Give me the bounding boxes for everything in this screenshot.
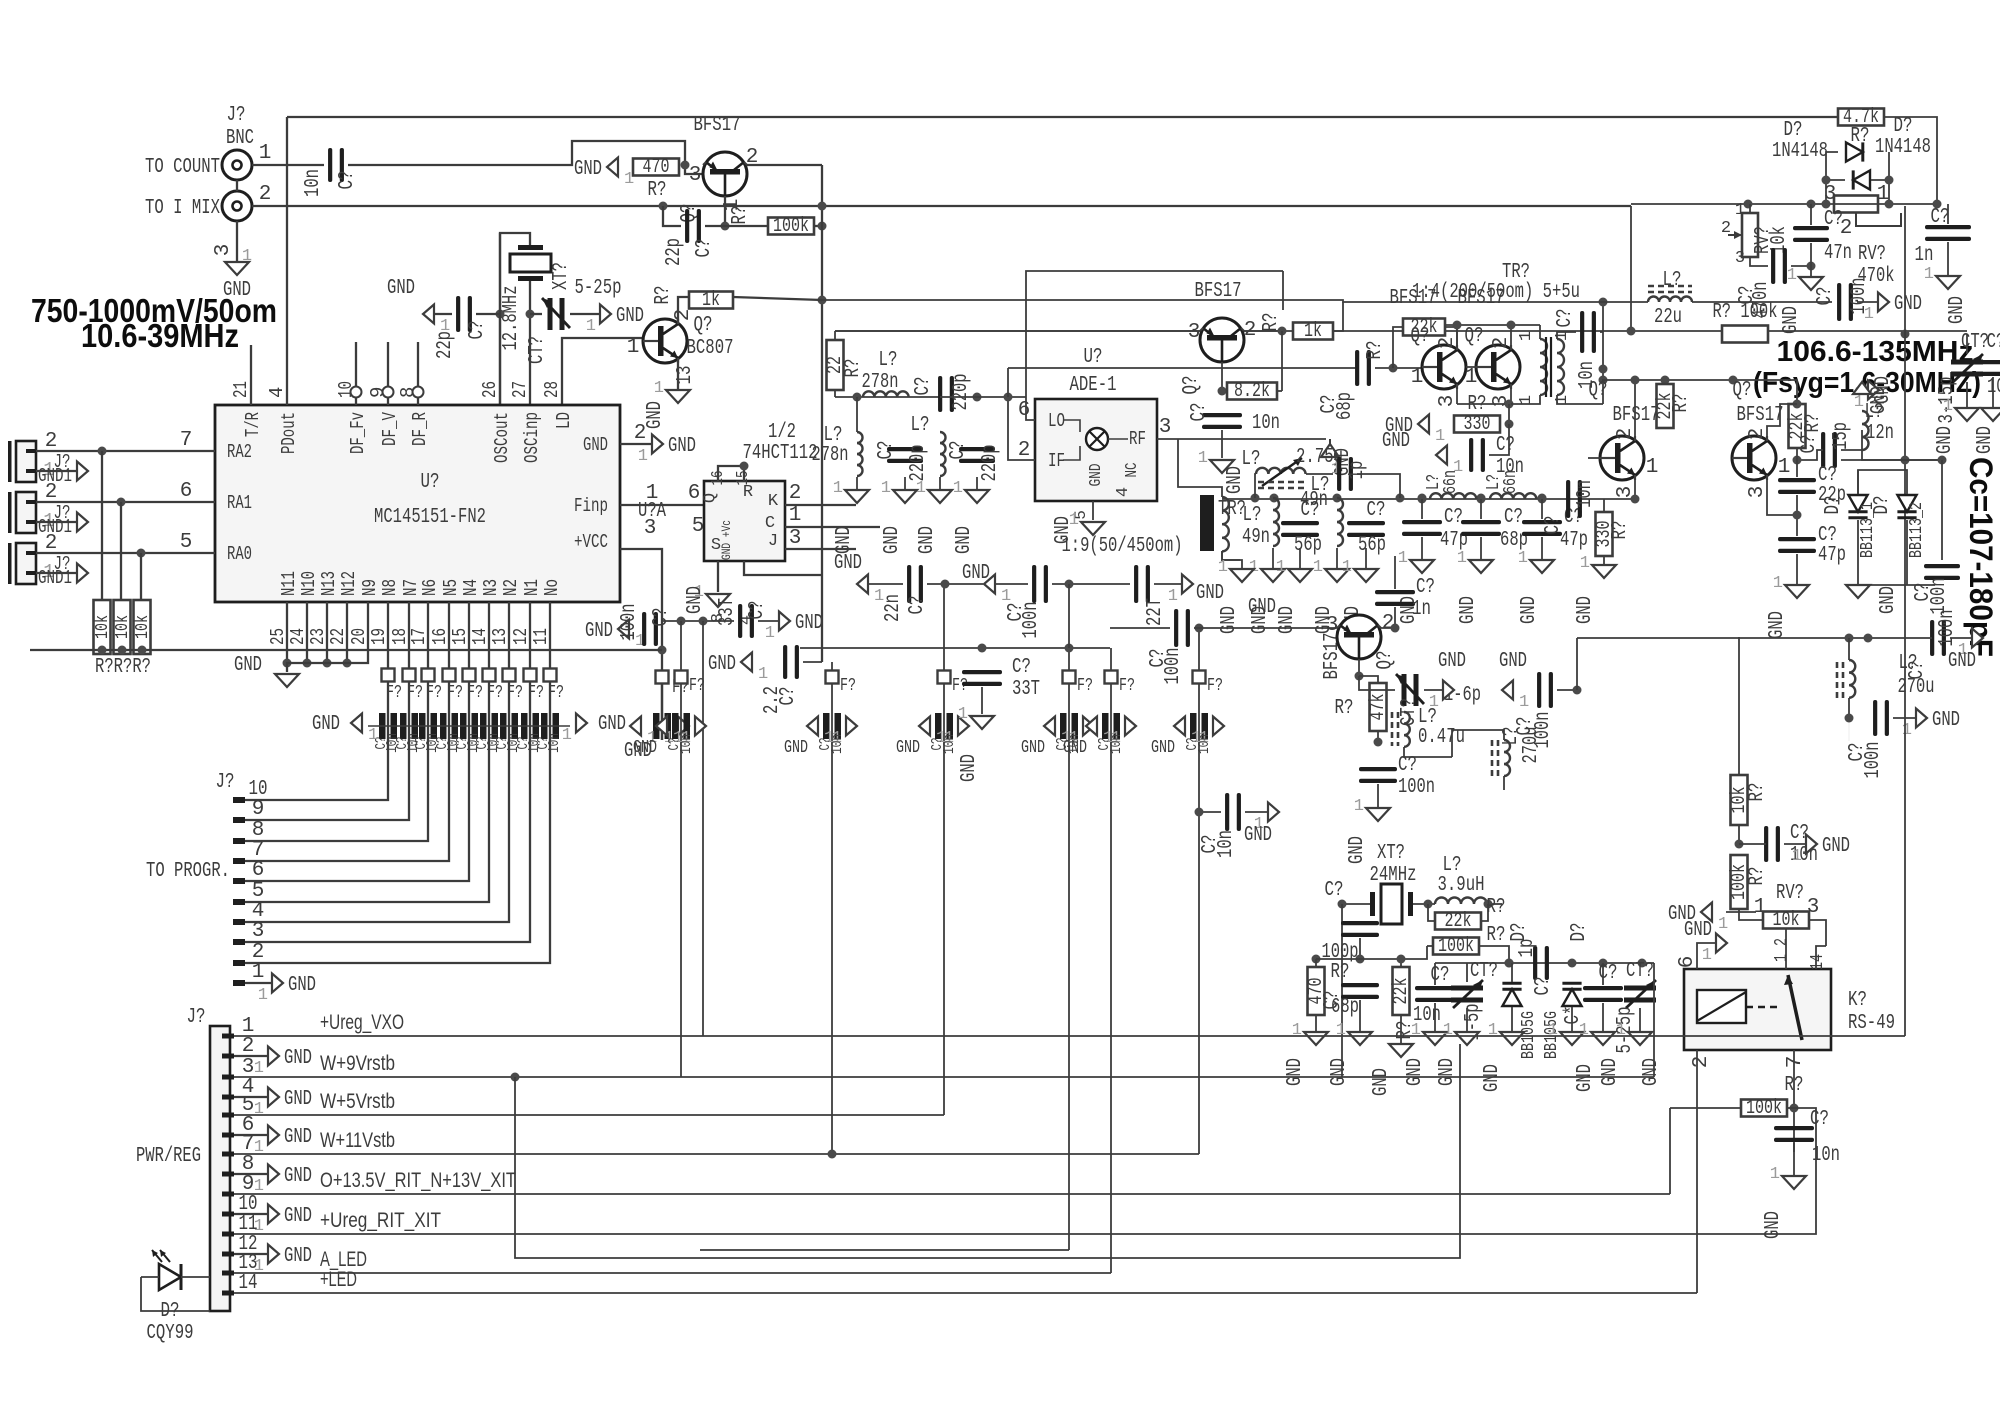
svg-text:GND: GND [958, 754, 981, 782]
svg-text:49n: 49n [1300, 489, 1328, 512]
label CT? 1-6p [1398, 698, 1421, 726]
ic pin num 25 bottom [267, 628, 289, 645]
pot1 top [1749, 204, 1751, 213]
pwr pin stub 11 [222, 1232, 234, 1237]
feedthrough cap m681 [672, 713, 690, 739]
svg-text:GND: GND [1599, 1058, 1622, 1086]
label TO COUNT [145, 156, 220, 179]
hct S label [711, 536, 721, 555]
junction npin 307 [303, 659, 312, 668]
label R? 22kxt [1487, 896, 1506, 919]
GND label xtal left [387, 277, 415, 300]
GND1 label ra1 [38, 516, 72, 538]
label 12n [1866, 422, 1894, 445]
wire j pin1 ra0 [36, 572, 77, 574]
svg-text:F?: F? [952, 676, 968, 696]
wire 4.7k right [1884, 117, 1937, 204]
GND 100nq8b [1346, 836, 1369, 864]
GND 100nr1 [1948, 650, 1976, 673]
ade pin5 [1072, 510, 1090, 520]
svg-text:47n: 47n [1824, 242, 1852, 265]
svg-text:R?: R? [1609, 521, 1632, 540]
wire ritxit ext [1295, 1108, 1816, 1234]
svg-text:1: 1 [765, 624, 775, 643]
svg-text:R?: R? [1364, 341, 1387, 360]
label C? 10npair [1496, 434, 1515, 457]
wire top rail [287, 116, 1838, 118]
tank upper branch2 [1306, 473, 1333, 475]
ic pin open circle DF_V [383, 387, 394, 398]
l047 bot [1404, 747, 1452, 757]
label C? 15p [1798, 435, 1821, 454]
GND ft m1069 [1021, 738, 1045, 758]
wire base join pair [1466, 366, 1476, 368]
ic pin name N1 [521, 579, 543, 596]
svg-text:1: 1 [1580, 554, 1590, 573]
svg-text:GND: GND [1932, 709, 1960, 732]
svg-text:1: 1 [1488, 1021, 1498, 1040]
wire BNC2 to gnd [236, 221, 238, 262]
junction x681 y621 [677, 617, 686, 626]
svg-text:3: 3 [689, 164, 702, 187]
feedthrough cap n469 [460, 713, 478, 739]
junction bbrow 1642 [1638, 959, 1647, 968]
core 1:4 [1546, 337, 1551, 397]
GND 470xt [1284, 1058, 1307, 1086]
label 1n [1915, 244, 1934, 267]
svg-text:GND: GND [574, 158, 602, 181]
ic pin name N3 [480, 579, 502, 596]
junction bbrow 1572 [1568, 959, 1577, 968]
pin3 q3 [1188, 321, 1201, 344]
resistor R? 10k c [133, 600, 153, 654]
svg-text:12n: 12n [1866, 422, 1894, 445]
core L270u right [1837, 662, 1843, 700]
pwr pin stub 4 [222, 1095, 234, 1100]
relay pin6 [1676, 956, 1699, 969]
pin num progr 6 [252, 859, 265, 882]
GND label BNC [223, 279, 251, 302]
GND ft m1111 [1063, 738, 1087, 758]
ic pin num 9 [367, 387, 389, 398]
svg-text:3: 3 [1807, 896, 1820, 919]
transistor Q8 BFS17 [1337, 615, 1381, 659]
wire 33tmid dn [981, 687, 983, 714]
label C? 22n [906, 596, 929, 615]
pwr pin num 9 [242, 1173, 255, 1196]
svg-text:1: 1 [1342, 558, 1352, 577]
label TO PROGR. [146, 860, 230, 883]
svg-text:CT?: CT? [1470, 960, 1498, 983]
label 100n r2 [1862, 742, 1885, 779]
label C? 56pb [1367, 499, 1386, 522]
pin stub progr 4 [233, 919, 245, 925]
wire ncol 469 down [468, 602, 470, 737]
label C? ft 530 [515, 737, 532, 750]
capacitor C? 10n right [1764, 826, 1780, 862]
ic top pin DF_R stub [417, 398, 419, 405]
capacitor C? 1p tank [1337, 457, 1353, 491]
pin2 Q1 [746, 146, 759, 169]
svg-text:DF_Fv: DF_Fv [347, 412, 369, 454]
svg-text:22k: 22k [1390, 978, 1413, 1005]
label C? ft 509 [494, 737, 511, 750]
ground cbb [1579, 1021, 1615, 1045]
svg-text:1: 1 [1579, 1021, 1589, 1040]
svg-text:GND: GND [1436, 1058, 1459, 1086]
100nr2 right [1893, 717, 1916, 719]
100n q8 right [1557, 689, 1577, 691]
label C? ft m681 [666, 738, 683, 751]
varicap loop [1858, 470, 1907, 494]
svg-text:C?: C? [1810, 1108, 1829, 1131]
gnd flag 22p xtal [423, 305, 450, 337]
gnd flag 22n [857, 575, 884, 607]
gnd flag 33t [765, 612, 823, 644]
svg-text:100n: 100n [1398, 776, 1435, 799]
ade NC label [1123, 463, 1142, 478]
svg-text:NC: NC [1123, 463, 1142, 478]
svg-text:GND: GND [1481, 1064, 1504, 1092]
inductor L? 278n a [863, 391, 909, 397]
label L? 270ur [1899, 652, 1918, 675]
label C? ft m1069 [1054, 738, 1071, 751]
wire npin 287 down [286, 602, 288, 663]
wire crystal down [529, 281, 531, 405]
junction 10k bot 142 [138, 646, 147, 655]
svg-text:1: 1 [1718, 915, 1728, 934]
mixer if lead [1063, 446, 1080, 460]
svg-text:1: 1 [1773, 574, 1783, 593]
bead F? m681 [675, 671, 688, 684]
svg-text:R?R?R?: R?R?R? [95, 656, 151, 679]
ade gnd pin5 [1092, 501, 1094, 520]
label 2.75u [1296, 446, 1343, 469]
svg-text:1k: 1k [1304, 320, 1322, 343]
q7 cap chain3 [1796, 554, 1798, 585]
mixer lo lead [1063, 420, 1080, 432]
label D? bb113a [1822, 496, 1845, 515]
junction 330 node [1505, 420, 1514, 429]
svg-text:100k: 100k [1438, 935, 1474, 958]
l270mid bot [1503, 776, 1505, 790]
label 1N4148 b [1875, 136, 1931, 159]
label L? 278c [911, 414, 930, 437]
resistor R? 1k [689, 289, 733, 312]
label XT? [550, 262, 573, 290]
gnd flag ft m832 r [832, 717, 857, 749]
label F? m1199 [1207, 676, 1223, 696]
col 1069 link [1068, 584, 1070, 648]
svg-text:GND: GND [583, 434, 608, 456]
pin stub progr 6 [233, 878, 245, 884]
junction q6 e [1631, 495, 1640, 504]
label 24MHz [1370, 864, 1417, 887]
label F? m1069 [1077, 676, 1093, 696]
svg-text:2: 2 [1436, 337, 1459, 350]
svg-text:GND: GND [784, 738, 808, 758]
svg-text:9: 9 [367, 387, 389, 398]
ade pin3 [1159, 416, 1172, 439]
svg-text:C?: C? [1188, 403, 1211, 422]
pin num progr 1 [252, 961, 265, 984]
junction toimix drop [1627, 327, 1636, 336]
GND ft vcc [624, 740, 652, 763]
pin1 q4 [1411, 366, 1424, 389]
svg-text:GND: GND [1244, 824, 1272, 847]
wire w9 up [1653, 963, 1655, 1077]
junction y204 1826 [1822, 200, 1831, 209]
pot2 wiper [1856, 213, 1901, 226]
gnd flag vcc cap [585, 620, 645, 652]
svg-text:22n: 22n [882, 594, 905, 622]
relay K? RS-49 body [1684, 969, 1831, 1050]
ic pin num 27 [509, 381, 531, 398]
label 100n r1 [1936, 610, 1959, 647]
label 1n q8 [1412, 598, 1431, 621]
svg-text:1p: 1p [1346, 461, 1369, 480]
svg-text:1: 1 [254, 1059, 264, 1078]
feedthrough cap m1199 [1190, 713, 1208, 739]
label CT? 3-15p [1961, 331, 1989, 354]
wire pin21 stub [250, 345, 252, 405]
wire ra1 [36, 501, 215, 503]
svg-text:13: 13 [489, 628, 511, 645]
pin num progr 7 [252, 839, 265, 862]
pin3 q6 [1614, 486, 1637, 499]
hct pin15 [734, 471, 753, 486]
resistor R? 470 [633, 156, 679, 179]
label 100p vco [1987, 376, 2000, 399]
hct R label [743, 483, 753, 502]
svg-text:RF: RF [1129, 428, 1146, 450]
q8 collector [1381, 607, 1395, 628]
capacitor C? 1n q8 [1375, 590, 1415, 606]
svg-text:GND: GND [1518, 596, 1541, 624]
svg-text:17: 17 [408, 628, 430, 645]
label C? cbb [1599, 962, 1618, 985]
capacitor C? 22T [1134, 565, 1150, 603]
tank gnd 1300 [1299, 548, 1301, 569]
svg-text:C?: C? [1814, 287, 1837, 306]
svg-text:3: 3 [1159, 416, 1172, 439]
tr19 sec bottom [1222, 551, 1242, 569]
label BFS17 q5 [1458, 287, 1505, 310]
capacitor C? 10n bnc [328, 148, 344, 182]
q6 base [1588, 457, 1600, 459]
svg-text:C?: C? [1504, 506, 1523, 529]
GND 1n [1946, 296, 1969, 324]
svg-text:1: 1 [1646, 456, 1659, 479]
tr19 prim top [1178, 439, 1222, 497]
feedthrough cap n489 [480, 713, 498, 739]
pwr pin stub 6 [222, 1133, 234, 1138]
net label A_LED [320, 1248, 367, 1271]
GND varicap [1877, 586, 1900, 614]
pin 2 BNC [259, 183, 272, 206]
transistor Q3 BFS17 [1200, 318, 1244, 362]
ground 100nq8b [1354, 797, 1390, 821]
GND tank 1337 [1313, 606, 1336, 634]
label C? 2.2 [777, 687, 800, 706]
label 270u right [1898, 676, 1935, 699]
label C? 100n q8 [1514, 717, 1537, 736]
stub 68prow [1480, 499, 1482, 519]
gnd flag pwr 4 [254, 1088, 312, 1120]
label 10n ft 388 [384, 733, 401, 753]
wire 100k to vert [814, 225, 822, 227]
label PWR/REG [136, 1145, 201, 1168]
svg-text:C?: C? [466, 321, 489, 340]
label C? 47n [1824, 208, 1843, 231]
label C? ft 469 [454, 737, 471, 750]
label D? a [1784, 119, 1803, 142]
junction vcc cap [658, 646, 667, 655]
470xt dn [1315, 1015, 1317, 1032]
svg-text:J?: J? [187, 1006, 206, 1029]
svg-text:R?: R? [652, 286, 675, 305]
junction q3 e [1218, 387, 1227, 396]
svg-text:No: No [541, 579, 563, 596]
label C? 47p q7 [1818, 524, 1837, 547]
svg-text:1N4148: 1N4148 [1875, 136, 1931, 159]
label C? 100nmid [1005, 603, 1028, 622]
pot1 wiper arrow [1728, 231, 1742, 239]
svg-text:1: 1 [258, 986, 268, 1005]
pwr pin stub 12 [222, 1252, 234, 1257]
row cap dn 1542 [1541, 537, 1543, 560]
svg-text:CQY99: CQY99 [147, 1322, 194, 1345]
svg-text:270u: 270u [1520, 727, 1543, 764]
svg-text:1: 1 [1778, 456, 1791, 479]
svg-text:C?: C? [1431, 964, 1450, 987]
hct pin8 [709, 613, 728, 623]
label 278n a [862, 371, 899, 394]
10kr dn [1738, 825, 1740, 844]
connector BNC label [226, 127, 254, 150]
svg-text:27: 27 [509, 381, 531, 398]
junction q4c [1453, 321, 1462, 330]
junction npin 327 [323, 659, 332, 668]
ground 68pxt [1336, 1021, 1372, 1045]
label C? 1n q8 [1416, 576, 1435, 599]
wire column x832 [831, 662, 833, 1154]
junction x1603 369 [1599, 365, 1608, 374]
svg-text:24: 24 [287, 628, 309, 645]
GND row 1422 [1398, 596, 1421, 624]
wire W+9Vrstb [234, 1076, 681, 1078]
ic pin name N5 [440, 579, 462, 596]
row2 wire [800, 647, 1110, 649]
svg-text:1: 1 [1924, 265, 1934, 284]
pwr pin stub 10 [222, 1212, 234, 1217]
potentiometer RV? 10k relay [1763, 909, 1809, 932]
100pxt chain [1359, 938, 1361, 959]
svg-text:6: 6 [1676, 956, 1699, 969]
svg-text:GND: GND [1196, 582, 1224, 605]
label RV? 10ka [1752, 226, 1775, 254]
pwr pin num 2 [242, 1035, 255, 1058]
ground pi 905 [881, 479, 917, 503]
svg-text:GND: GND [1457, 596, 1480, 624]
39uh right [1487, 903, 1502, 905]
svg-text:330: 330 [1464, 413, 1491, 436]
ct15 top [1466, 963, 1468, 982]
svg-text:68p: 68p [1331, 996, 1359, 1019]
wire q4 col [1456, 325, 1458, 345]
resistor R? 100k right [1728, 855, 1751, 909]
svg-text:Q?: Q? [1180, 376, 1203, 395]
wire l278 rail [835, 396, 940, 398]
ground 10nbb [1411, 1021, 1447, 1045]
resistor R? 22k q6 [1654, 384, 1677, 428]
wire 10nmid3 [1199, 811, 1221, 813]
gnd flag ft m1111 r [1111, 717, 1136, 749]
svg-text:1: 1 [1854, 393, 1864, 412]
pin num progr 10 [249, 778, 268, 801]
svg-text:GND: GND [1780, 306, 1803, 334]
label C? ft m1111 [1096, 738, 1113, 751]
label D? bb113b [1871, 496, 1894, 515]
GND row1 b [962, 562, 990, 585]
gray 1 rf [1331, 460, 1341, 479]
ground q3 [1198, 449, 1234, 473]
ic pin num 3 r [644, 517, 657, 540]
label U? ade [1084, 346, 1103, 369]
stub 47pa [1421, 499, 1423, 519]
wire 68p to bases [1375, 367, 1422, 369]
relay pin2 [1690, 1056, 1713, 1069]
GND vco mid [1868, 386, 1891, 414]
svg-text:1: 1 [654, 379, 664, 398]
pwr pin num 1 [242, 1015, 255, 1038]
svg-text:20: 20 [348, 628, 370, 645]
gnd flag 330pair [1385, 415, 1445, 447]
wire progr 7 [245, 737, 449, 861]
svg-text:1: 1 [1443, 1021, 1453, 1040]
IC U? MC145151-FN2 body [215, 405, 620, 602]
label Q? q8 [1374, 651, 1397, 670]
pin stub progr 5 [233, 899, 245, 905]
GND 33tmid [958, 754, 981, 782]
svg-text:LO: LO [1048, 410, 1065, 432]
wire toimix drop [1630, 206, 1632, 331]
feedthrough cap m944 [935, 713, 953, 739]
gnd flag j ra2 [77, 462, 88, 481]
wire 10npair [1489, 424, 1509, 455]
svg-text:N3: N3 [480, 579, 502, 596]
GND rf label [1332, 448, 1355, 476]
svg-text:DF_R: DF_R [409, 412, 431, 446]
svg-text:GND: GND [633, 738, 657, 758]
label BB105G a [1519, 1011, 1539, 1059]
gnd flag ct16 [1429, 681, 1454, 713]
ground row 1542 [1518, 549, 1554, 573]
68pxt dn [1359, 1000, 1361, 1032]
label L? 2.75u a [1242, 448, 1261, 471]
svg-text:22: 22 [327, 628, 349, 645]
gnd flag ic pin2 [638, 435, 696, 467]
svg-text:1: 1 [1198, 449, 1208, 468]
wire 22res bot [834, 390, 836, 397]
junction bbrow 1509 [1505, 959, 1514, 968]
gnd flag 22T [1168, 575, 1193, 607]
pin num progr 2 [252, 941, 265, 964]
gnd flag ft vcc r [664, 717, 689, 749]
label L? 49nb [1311, 474, 1330, 497]
svg-text:100k: 100k [773, 215, 809, 238]
label C? q1 [693, 239, 716, 258]
